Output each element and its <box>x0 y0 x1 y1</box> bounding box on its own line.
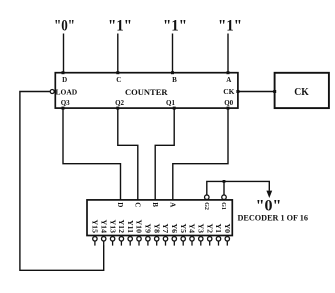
svg-text:"1": "1" <box>163 17 187 34</box>
junction pin Q0 <box>227 107 230 110</box>
clock box CK <box>275 73 329 108</box>
wire stub Y10 <box>138 241 140 245</box>
svg-text:"0": "0" <box>54 17 75 34</box>
svg-text:"1": "1" <box>108 17 132 34</box>
G1 bubble <box>222 195 227 200</box>
svg-text:Y12: Y12 <box>117 220 126 234</box>
svg-text:C: C <box>116 76 121 84</box>
wire stub Y5 <box>182 241 184 245</box>
wire stub Y9 <box>147 241 149 245</box>
LOAD bubble <box>50 90 54 94</box>
wire stub Y6 <box>173 241 175 245</box>
svg-text:Y8: Y8 <box>152 223 161 233</box>
svg-text:DECODER 1 OF 16: DECODER 1 OF 16 <box>238 214 308 223</box>
wire Q1 to decoder B <box>155 108 174 200</box>
svg-text:"1": "1" <box>218 17 242 34</box>
svg-text:Y0: Y0 <box>223 223 232 233</box>
wire Q3 to decoder D <box>63 108 121 200</box>
junction pin Q1 <box>173 107 176 110</box>
svg-text:Y3: Y3 <box>197 223 206 233</box>
svg-text:B: B <box>172 76 177 84</box>
decoder output bubble Y3 <box>199 237 203 241</box>
decoder output bubble Y2 <box>208 237 212 241</box>
wire stub Y11 <box>129 241 131 245</box>
junction pin B <box>171 71 174 74</box>
svg-text:Y14: Y14 <box>99 220 108 234</box>
svg-text:A: A <box>169 202 177 207</box>
arrowhead enable 0 <box>266 191 272 198</box>
decoder output bubble Y7 <box>163 237 167 241</box>
decoder box <box>87 200 232 236</box>
junction pin CK <box>236 90 239 93</box>
wire stub Y7 <box>165 241 167 245</box>
wire stub Y4 <box>191 241 193 245</box>
wire B input <box>172 34 174 73</box>
wire stub Y3 <box>200 241 202 245</box>
svg-text:C: C <box>134 202 142 207</box>
wire stub Y0 <box>226 241 228 245</box>
svg-text:Y4: Y4 <box>188 223 197 233</box>
wire stub Y1 <box>218 241 220 245</box>
wire D input <box>63 34 65 73</box>
svg-text:B: B <box>151 202 159 207</box>
wire A input <box>227 34 229 73</box>
svg-text:Q3: Q3 <box>61 99 70 107</box>
svg-text:A: A <box>226 76 231 84</box>
svg-text:Y15: Y15 <box>91 220 100 234</box>
svg-text:Y13: Y13 <box>108 220 117 234</box>
decoder output bubble Y9 <box>146 237 150 241</box>
svg-text:D: D <box>116 202 124 207</box>
counter box <box>55 73 238 108</box>
svg-text:Q0: Q0 <box>224 99 233 107</box>
wire stub Y15 <box>94 241 96 245</box>
decoder output bubble Y11 <box>128 237 132 241</box>
junction pin D <box>62 71 65 74</box>
svg-text:G1: G1 <box>220 202 226 210</box>
svg-text:COUNTER: COUNTER <box>125 87 168 97</box>
svg-text:G2: G2 <box>203 202 209 210</box>
svg-text:Y10: Y10 <box>135 220 144 234</box>
wire C input <box>117 34 119 73</box>
decoder output bubble Y5 <box>181 237 185 241</box>
svg-text:CK: CK <box>294 86 309 98</box>
decoder output bubble Y8 <box>155 237 159 241</box>
G2 bubble <box>205 195 210 200</box>
wire CK to clock box <box>238 91 275 93</box>
decoder output bubble Y1 <box>216 237 220 241</box>
wire Q0 to decoder A <box>173 108 228 200</box>
wire stub Y2 <box>209 241 211 245</box>
svg-text:Y6: Y6 <box>170 223 179 233</box>
svg-text:Y5: Y5 <box>179 223 188 233</box>
wire stub Y13 <box>112 241 114 245</box>
junction pin A <box>227 71 230 74</box>
junction G1 tap <box>223 180 226 183</box>
svg-text:Y2: Y2 <box>205 223 214 233</box>
svg-text:D: D <box>62 76 67 84</box>
decoder output bubble Y10 <box>137 237 141 241</box>
junction clock box pin <box>273 90 276 93</box>
junction pin C <box>116 71 119 74</box>
junction pin Q3 <box>62 107 65 110</box>
decoder output bubble Y6 <box>172 237 176 241</box>
junction pin Q2 <box>116 107 119 110</box>
wire LOAD to decoder Y14 <box>20 92 104 271</box>
decoder output bubble Y15 <box>93 237 97 241</box>
svg-text:Q1: Q1 <box>166 99 175 107</box>
wire G1 stub <box>223 181 225 195</box>
decoder output bubble Y12 <box>119 237 123 241</box>
svg-text:Y11: Y11 <box>126 220 135 233</box>
decoder output bubble Y13 <box>110 237 114 241</box>
wire stub Y12 <box>120 241 122 245</box>
wire stub Y14 <box>103 241 105 245</box>
wire stub Y8 <box>156 241 158 245</box>
wire Q2 to decoder C <box>118 108 138 200</box>
svg-text:Q2: Q2 <box>115 99 124 107</box>
svg-text:Y9: Y9 <box>144 223 153 233</box>
svg-text:Y1: Y1 <box>214 223 223 233</box>
svg-text:CK: CK <box>223 87 234 96</box>
svg-text:"0": "0" <box>256 198 282 215</box>
wire enable bus G2 G1 <box>207 181 269 195</box>
decoder output bubble Y0 <box>225 237 229 241</box>
decoder output bubble Y4 <box>190 237 194 241</box>
svg-text:LOAD: LOAD <box>56 88 78 97</box>
svg-text:Y7: Y7 <box>161 223 170 233</box>
decoder output bubble Y14 <box>102 237 106 241</box>
